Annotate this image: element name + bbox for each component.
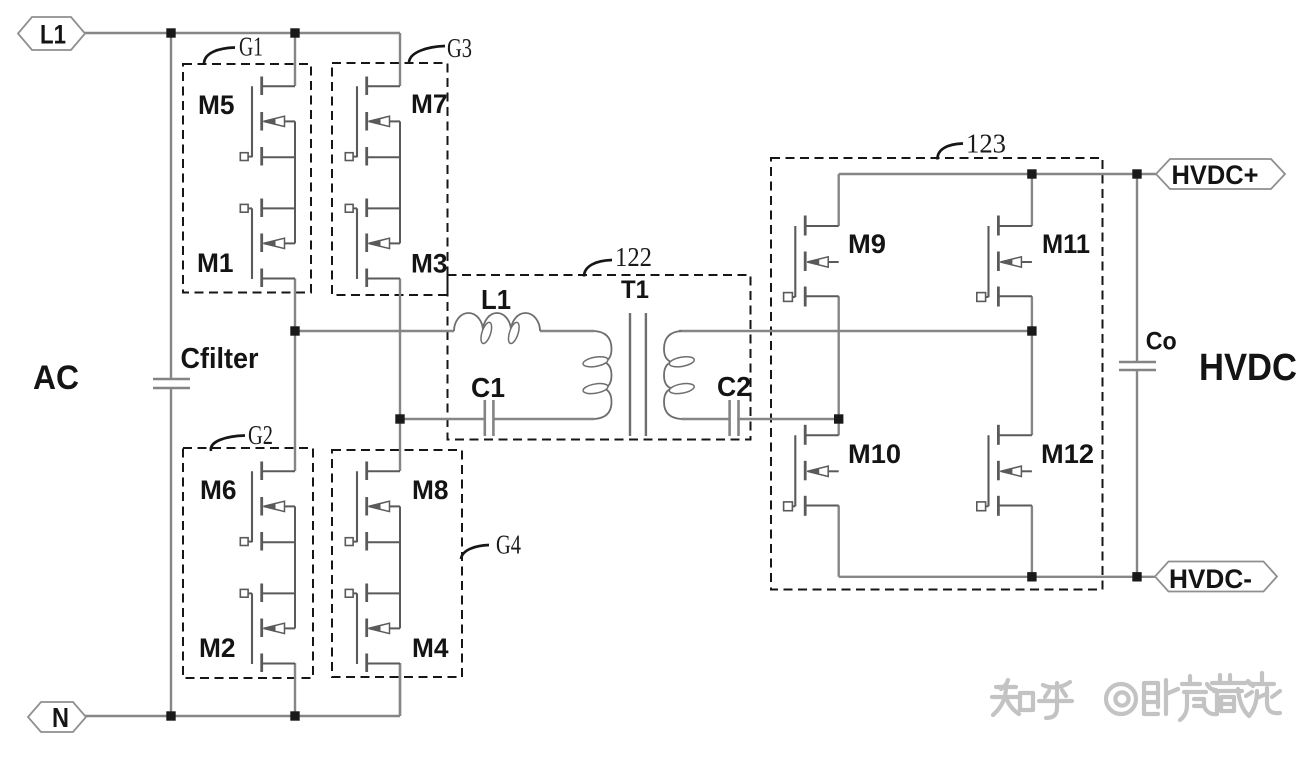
svg-text:M2: M2 xyxy=(199,633,236,663)
svg-text:C2: C2 xyxy=(717,371,751,402)
svg-text:M10: M10 xyxy=(848,439,901,469)
svg-text:M4: M4 xyxy=(412,633,449,663)
svg-text:M9: M9 xyxy=(848,229,886,259)
svg-text:L1: L1 xyxy=(481,284,511,315)
svg-text:123: 123 xyxy=(966,129,1006,159)
svg-text:G3: G3 xyxy=(447,33,472,63)
svg-text:N: N xyxy=(52,702,69,733)
svg-text:M11: M11 xyxy=(1042,229,1090,259)
svg-text:122: 122 xyxy=(615,242,652,272)
svg-text:G2: G2 xyxy=(248,420,273,450)
svg-text:Co: Co xyxy=(1146,328,1177,356)
svg-text:G1: G1 xyxy=(239,32,263,62)
svg-text:HVDC-: HVDC- xyxy=(1169,564,1252,594)
svg-text:HVDC: HVDC xyxy=(1199,347,1297,389)
svg-text:Cfilter: Cfilter xyxy=(181,343,259,375)
svg-text:M8: M8 xyxy=(412,475,449,505)
svg-text:M5: M5 xyxy=(198,90,235,120)
svg-text:M12: M12 xyxy=(1041,439,1094,469)
svg-text:M1: M1 xyxy=(197,248,234,278)
svg-text:AC: AC xyxy=(33,359,79,397)
svg-text:T1: T1 xyxy=(621,276,649,304)
svg-text:G4: G4 xyxy=(496,530,521,560)
svg-text:C1: C1 xyxy=(471,372,505,403)
svg-text:L1: L1 xyxy=(40,20,66,50)
svg-text:M7: M7 xyxy=(411,89,448,119)
svg-text:M3: M3 xyxy=(411,249,448,279)
svg-text:HVDC+: HVDC+ xyxy=(1172,160,1259,190)
svg-text:M6: M6 xyxy=(200,475,237,505)
